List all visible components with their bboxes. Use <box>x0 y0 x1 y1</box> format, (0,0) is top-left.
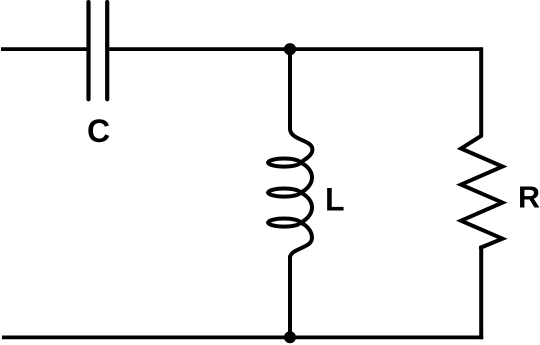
svg-text:L: L <box>325 182 345 218</box>
capacitor C1 left plate <box>86 2 90 99</box>
wire top-left segment <box>1 47 87 51</box>
wire right branch top lead <box>479 47 483 136</box>
inductor L1 coil <box>268 129 312 259</box>
capacitor C1 right plate <box>105 2 109 99</box>
svg-text:R: R <box>518 181 540 215</box>
node top junction <box>284 43 296 55</box>
resistor R1 zigzag <box>461 135 503 250</box>
wire top-right segment <box>109 47 481 51</box>
svg-text:C: C <box>87 113 110 149</box>
wire right branch bottom lead <box>479 248 483 340</box>
wire inductor top lead <box>288 49 292 130</box>
wire inductor bottom lead <box>288 256 292 338</box>
wire bottom <box>2 335 483 339</box>
node bottom junction <box>284 331 296 343</box>
